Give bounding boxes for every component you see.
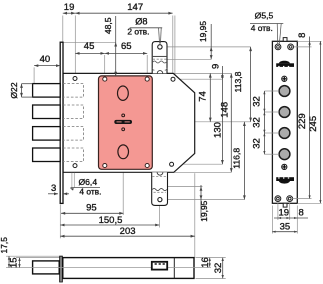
dimension 113,8 bbox=[233, 47, 252, 122]
svg-text:35: 35 bbox=[280, 222, 291, 233]
dimension 116,8 bbox=[231, 122, 245, 200]
extension lines bbox=[34, 16, 251, 258]
pin hole below key slot bbox=[122, 128, 125, 131]
svg-text:4 отв.: 4 отв. bbox=[79, 187, 101, 197]
key slot bbox=[114, 120, 132, 124]
svg-text:19,95: 19,95 bbox=[199, 200, 209, 221]
dimension 74 bbox=[198, 73, 212, 121]
svg-text:229: 229 bbox=[297, 113, 308, 129]
svg-text:116,8: 116,8 bbox=[231, 148, 241, 169]
svg-text:147: 147 bbox=[127, 2, 143, 13]
pin hole above key slot bbox=[122, 114, 125, 117]
screw hole top-left bbox=[275, 44, 281, 50]
svg-text:Ø6,4: Ø6,4 bbox=[78, 177, 97, 187]
bolt 3 bbox=[33, 127, 61, 141]
svg-text:245: 245 bbox=[308, 116, 319, 132]
bolt 2 hidden body bbox=[63, 105, 84, 119]
svg-text:32: 32 bbox=[251, 117, 262, 128]
svg-text:150,5: 150,5 bbox=[99, 215, 123, 226]
label Ø5,5 4 отв. bbox=[250, 10, 283, 43]
dimension 45 bbox=[75, 41, 104, 55]
screw with cross bottom bbox=[282, 164, 287, 169]
bottom tab hole (Ø8) bbox=[158, 198, 162, 202]
bolt 4 hidden body bbox=[63, 148, 84, 162]
side view case top ext bbox=[16, 257, 63, 259]
dimension 147 (top) bbox=[75, 2, 172, 15]
side view right exts bbox=[196, 258, 226, 279]
svg-text:8: 8 bbox=[299, 207, 304, 218]
dimension 203 bbox=[60, 226, 195, 237]
lock body outline bbox=[63, 73, 195, 172]
dimension 19,95 (top) bbox=[198, 21, 213, 60]
side view center line bbox=[6, 267, 211, 269]
bolt 3 hidden body bbox=[63, 127, 84, 141]
plate screw hole top-left bbox=[103, 77, 107, 81]
top mounting tab bbox=[152, 42, 167, 74]
svg-text:17,5: 17,5 bbox=[0, 237, 9, 254]
body hole top-right bbox=[171, 77, 175, 81]
side view lock case bbox=[63, 258, 194, 279]
dimension 19 (top) bbox=[63, 2, 76, 15]
svg-text:113,8: 113,8 bbox=[233, 71, 243, 92]
svg-text:32: 32 bbox=[213, 263, 224, 274]
svg-text:3: 3 bbox=[51, 183, 56, 194]
dimension 148 bbox=[220, 73, 233, 172]
label Ø6,4 4 отв. bbox=[70, 173, 101, 197]
svg-text:40: 40 bbox=[40, 54, 51, 65]
bolt hole circle 4 bbox=[279, 149, 290, 160]
svg-text:32: 32 bbox=[251, 96, 262, 107]
right view bottom exts bbox=[272, 199, 321, 234]
body hole top-left bbox=[73, 77, 77, 81]
svg-text:32: 32 bbox=[251, 138, 262, 149]
dimension 19 (right view) bbox=[274, 207, 308, 219]
dimension 35 bbox=[272, 222, 297, 233]
svg-text:4 отв.: 4 отв. bbox=[251, 23, 273, 33]
dimension Ø22 bbox=[9, 82, 33, 98]
dimension 65 bbox=[105, 41, 148, 55]
svg-text:45: 45 bbox=[84, 41, 95, 52]
dimension 9 bbox=[211, 64, 224, 165]
svg-text:16: 16 bbox=[200, 257, 211, 268]
side view case inner line bbox=[173, 258, 175, 279]
dimension 3 (faceplate) bbox=[48, 183, 69, 195]
faceplate plate bbox=[272, 41, 297, 203]
side view faceplate band bbox=[59, 256, 63, 283]
svg-text:8: 8 bbox=[297, 33, 308, 38]
svg-text:65: 65 bbox=[121, 41, 132, 52]
dimension 40 bbox=[34, 54, 60, 67]
right view top exts bbox=[294, 41, 322, 47]
plate screw hole bottom-left bbox=[103, 163, 107, 167]
svg-text:130: 130 bbox=[212, 122, 223, 138]
dimension 32 (side) bbox=[213, 258, 224, 279]
bolt hole circle 1 bbox=[279, 86, 290, 97]
plate screw hole top-right bbox=[145, 77, 149, 81]
svg-text:95: 95 bbox=[86, 203, 97, 214]
svg-text:9: 9 bbox=[211, 64, 222, 69]
label Ø8 2 отв. bbox=[127, 17, 162, 44]
dimension 15 bbox=[9, 257, 21, 268]
svg-text:74: 74 bbox=[198, 91, 209, 102]
side view escutcheon bbox=[152, 262, 167, 270]
brand logo top bbox=[276, 61, 294, 67]
dimension 95 bbox=[61, 203, 124, 215]
bottom mounting tab bbox=[152, 172, 168, 205]
svg-text:19,95: 19,95 bbox=[198, 21, 208, 42]
dimension 32 stack bbox=[251, 91, 265, 154]
dimension 19,95 (bottom) bbox=[199, 185, 209, 222]
bolt hole circle 2 bbox=[279, 107, 290, 118]
screw with cross top bbox=[282, 76, 287, 81]
screw hole bottom-left bbox=[275, 196, 281, 202]
dimension 16 bbox=[200, 257, 211, 268]
red cover plate bbox=[99, 76, 153, 169]
svg-text:19: 19 bbox=[64, 2, 75, 13]
dimension 245 bbox=[308, 41, 322, 203]
faceplate top lug bbox=[283, 38, 287, 42]
dimension 17,5 bbox=[0, 237, 10, 268]
body hole bottom-left bbox=[73, 164, 77, 168]
svg-text:Ø22: Ø22 bbox=[9, 82, 19, 98]
dimension 150,5 bbox=[60, 215, 159, 226]
brand logo bottom bbox=[276, 177, 294, 183]
bolt 4 bbox=[33, 148, 61, 162]
svg-text:Ø5,5: Ø5,5 bbox=[255, 10, 274, 20]
bolt 1 hidden body bbox=[63, 84, 84, 98]
top tab hole (Ø8) bbox=[158, 45, 162, 49]
svg-text:2 отв.: 2 отв. bbox=[127, 27, 149, 37]
cylinder hole top oval bbox=[118, 86, 129, 100]
svg-text:15: 15 bbox=[9, 257, 20, 268]
bolt hole circle 3 bbox=[279, 128, 290, 139]
bolt 2 bbox=[33, 105, 61, 119]
dimension 229 bbox=[297, 47, 310, 199]
screw hole bottom-right bbox=[287, 196, 293, 202]
svg-text:19: 19 bbox=[279, 207, 290, 218]
circle center stubs bbox=[264, 91, 279, 154]
screw hole top-right bbox=[288, 44, 294, 50]
dimension 8 (top) bbox=[297, 33, 311, 47]
dimension 130 bbox=[212, 122, 223, 164]
svg-text:203: 203 bbox=[120, 226, 136, 237]
cylinder hole bottom oval bbox=[118, 145, 129, 159]
body hole bottom-right bbox=[170, 162, 174, 166]
faceplate bottom lug bbox=[283, 203, 287, 207]
side view bolt bbox=[33, 261, 60, 274]
svg-text:48,5: 48,5 bbox=[103, 17, 113, 34]
svg-text:148: 148 bbox=[220, 102, 231, 118]
svg-text:Ø8: Ø8 bbox=[135, 17, 147, 27]
bolt 1 bbox=[33, 84, 61, 98]
faceplate strip bbox=[60, 42, 63, 203]
dimension 48,5 bbox=[103, 16, 117, 76]
plate screw hole bottom-right bbox=[145, 163, 149, 167]
side view faceplate top ext bbox=[6, 255, 59, 257]
